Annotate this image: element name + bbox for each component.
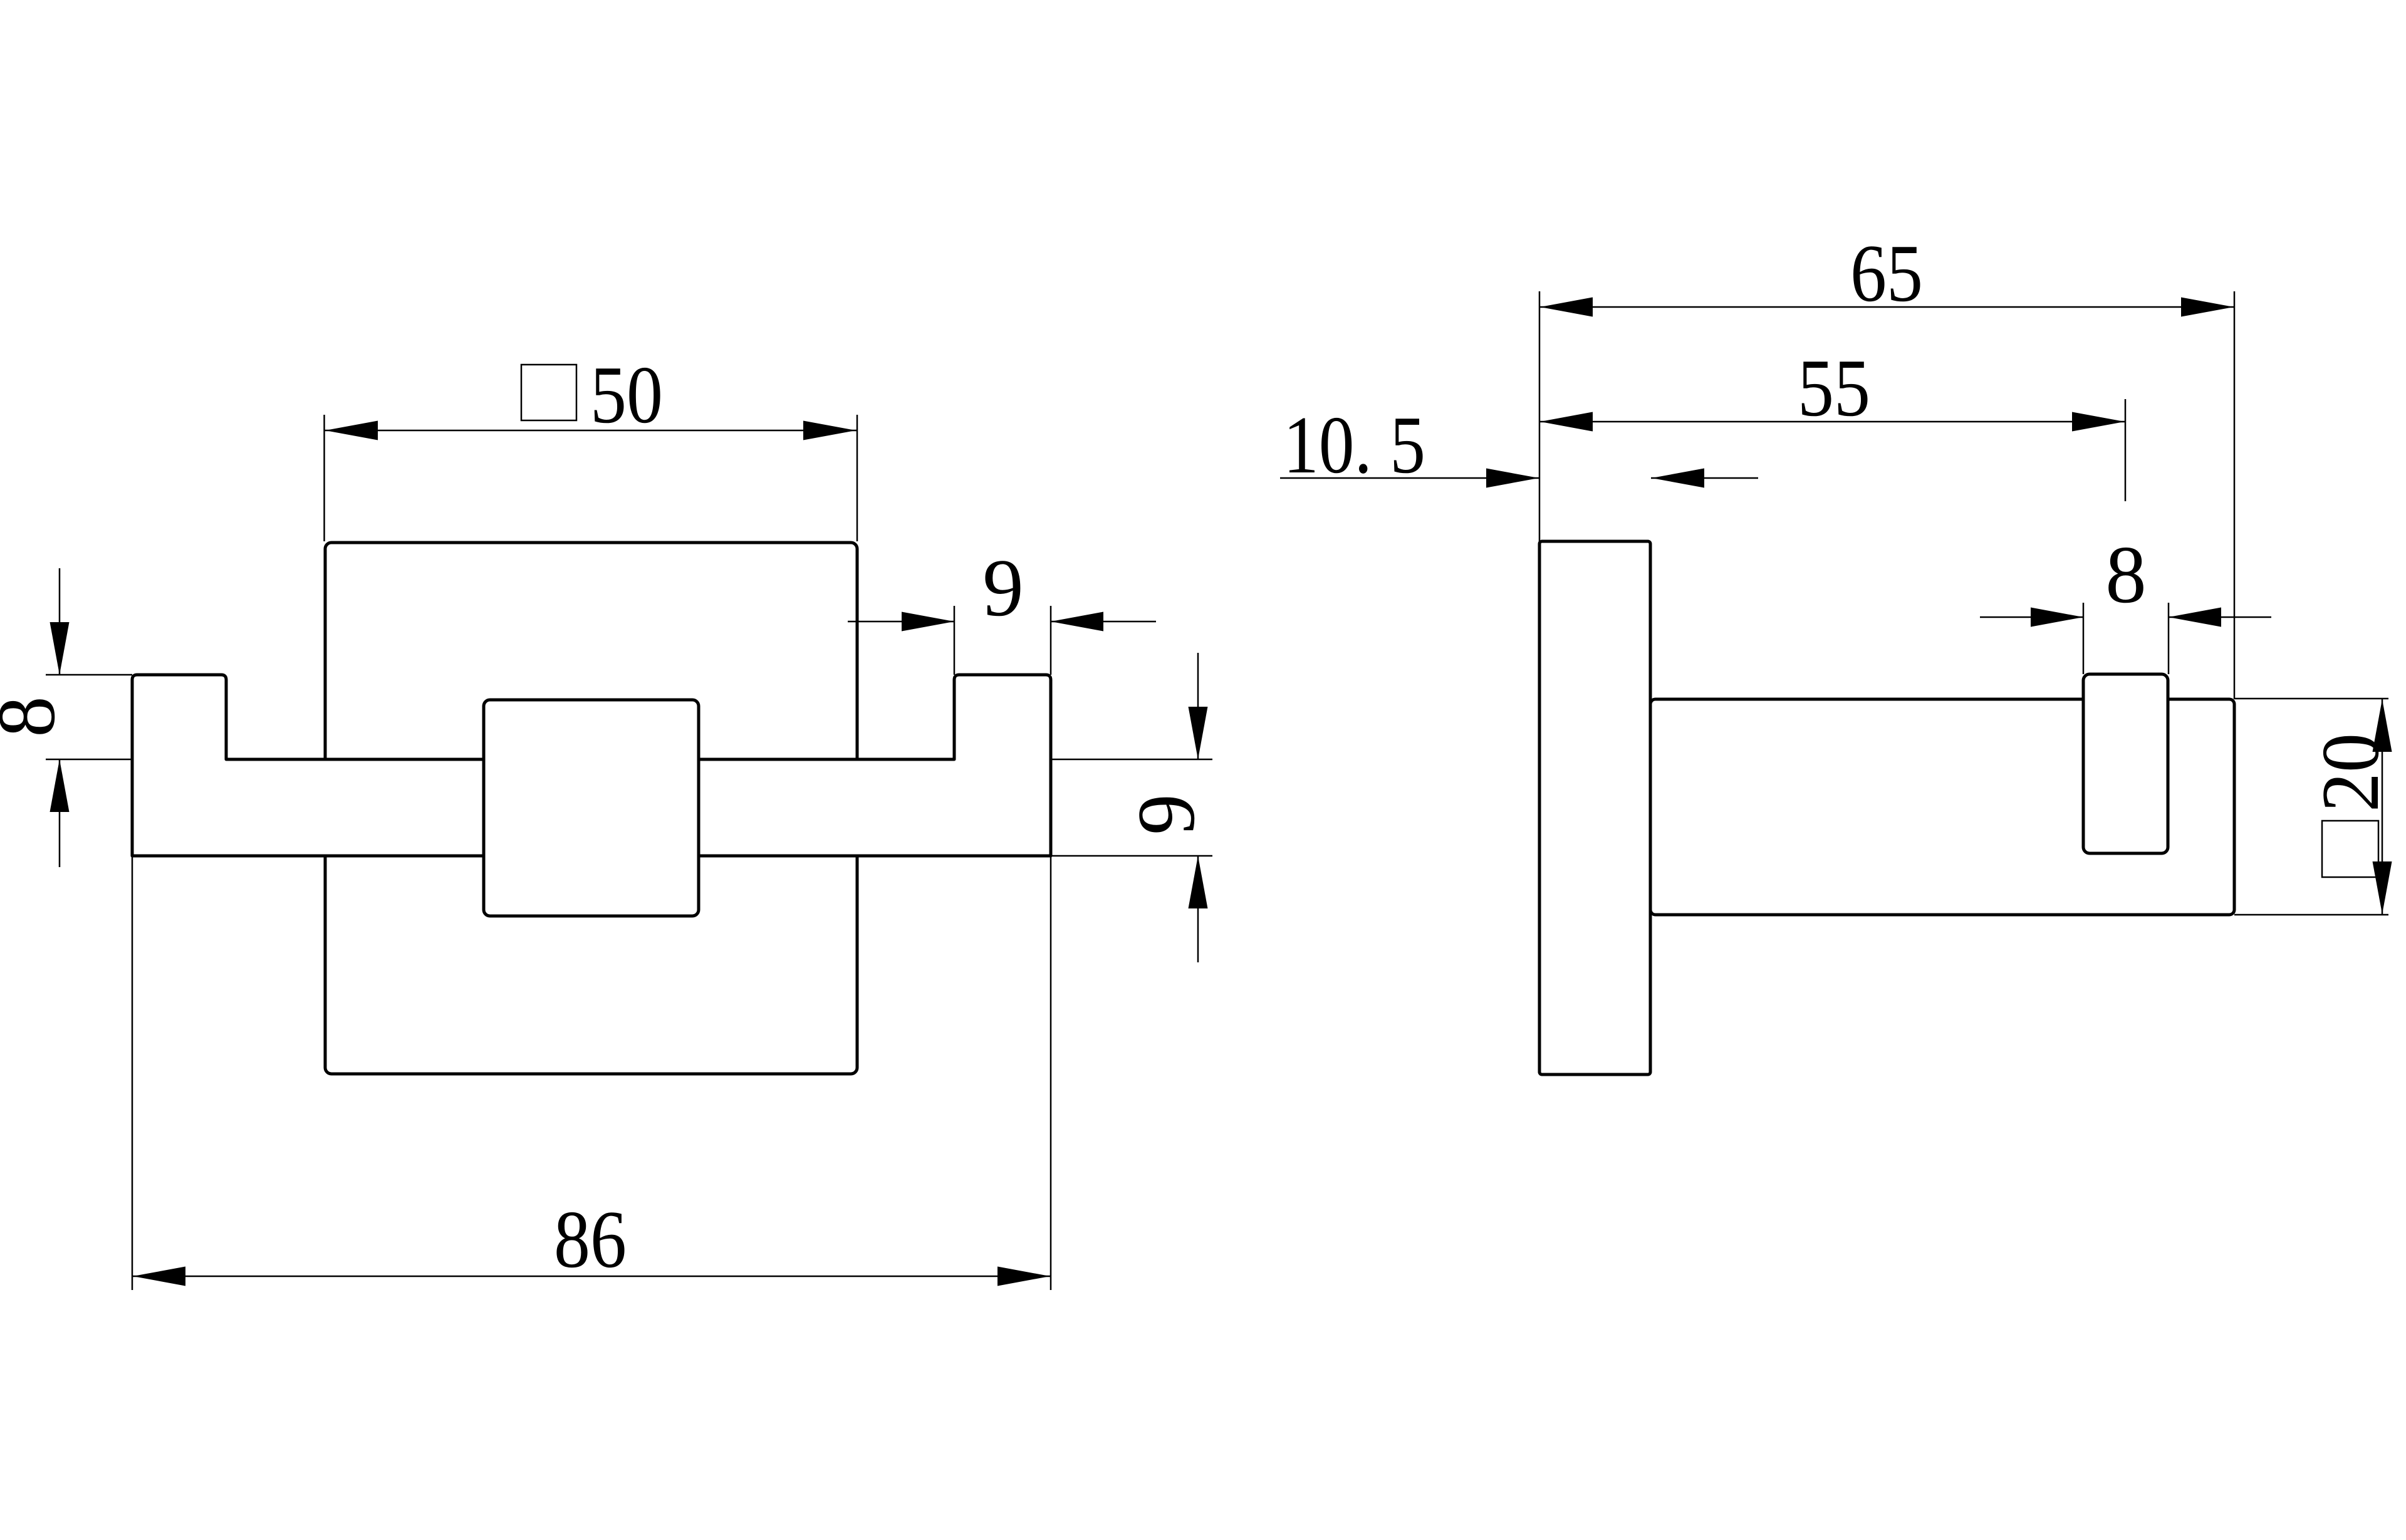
svg-text:9: 9 (1121, 794, 1212, 835)
svg-text:8: 8 (0, 696, 72, 737)
svg-text:50: 50 (590, 350, 663, 440)
svg-text:65: 65 (1850, 228, 1923, 319)
svg-text:55: 55 (1798, 343, 1870, 434)
svg-text:20: 20 (2305, 733, 2396, 812)
svg-text:10. 5: 10. 5 (1283, 400, 1425, 491)
svg-text:9: 9 (982, 543, 1024, 633)
svg-text:86: 86 (554, 1194, 627, 1285)
svg-text:8: 8 (2105, 529, 2147, 620)
